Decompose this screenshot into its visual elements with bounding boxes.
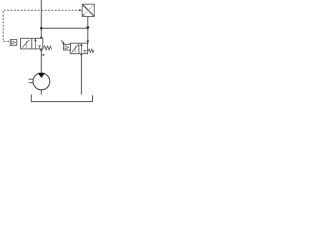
valve V1 return spring (43, 46, 51, 50)
valve V2 left position flow path (72, 45, 79, 53)
pump P1 (circle with solid triangle) (29, 73, 50, 90)
wire: riser from top edge down to supply junction (40, 0, 42, 28)
node: V1 bottom port (40, 49, 43, 52)
pilot control line (dashed) from service unit to valve V1 pilot (3, 10, 80, 41)
wire: horizontal supply line (41, 27, 88, 29)
node: junction riser/supply (40, 27, 43, 30)
valve V2 pilot box with triangle (64, 44, 71, 50)
arrowhead of pilot line at service unit (79, 9, 82, 12)
wire: valve V2 bottom port return line into tank (80, 54, 82, 95)
node: V2 bottom port (80, 54, 83, 57)
node: V2 top port arrow (86, 41, 89, 44)
valve V1 body (3/2-way, two positions) (21, 38, 43, 49)
valve V1 right position flow path with arrow (34, 38, 41, 49)
node: junction arrow at supply end (86, 27, 90, 31)
wire: valve V1 bottom port to pump (40, 49, 42, 73)
wire: pump suction into tank (40, 90, 42, 95)
tank T1 (open reservoir) (31, 95, 92, 102)
valve V2 body (3/2-way, two positions) (70, 43, 87, 54)
pilot actuation arrow into valve V2 pilot (61, 40, 64, 44)
valve V1 left position flow path (22, 40, 29, 48)
wire: service unit drop to supply junction (87, 17, 89, 29)
valve V2 return spring (88, 49, 94, 53)
exhaust mark below valve V1 (42, 54, 44, 57)
wire: drop from junction to valve V2 top (87, 28, 89, 43)
valve V1 pilot box with triangle (10, 40, 16, 46)
wire: supply drop to valve V1 top port (40, 28, 42, 38)
valve V2 right position flow path with arrow (80, 43, 87, 54)
service unit U1 (box with diagonal) (82, 4, 94, 16)
node: V1 top port (40, 37, 43, 40)
